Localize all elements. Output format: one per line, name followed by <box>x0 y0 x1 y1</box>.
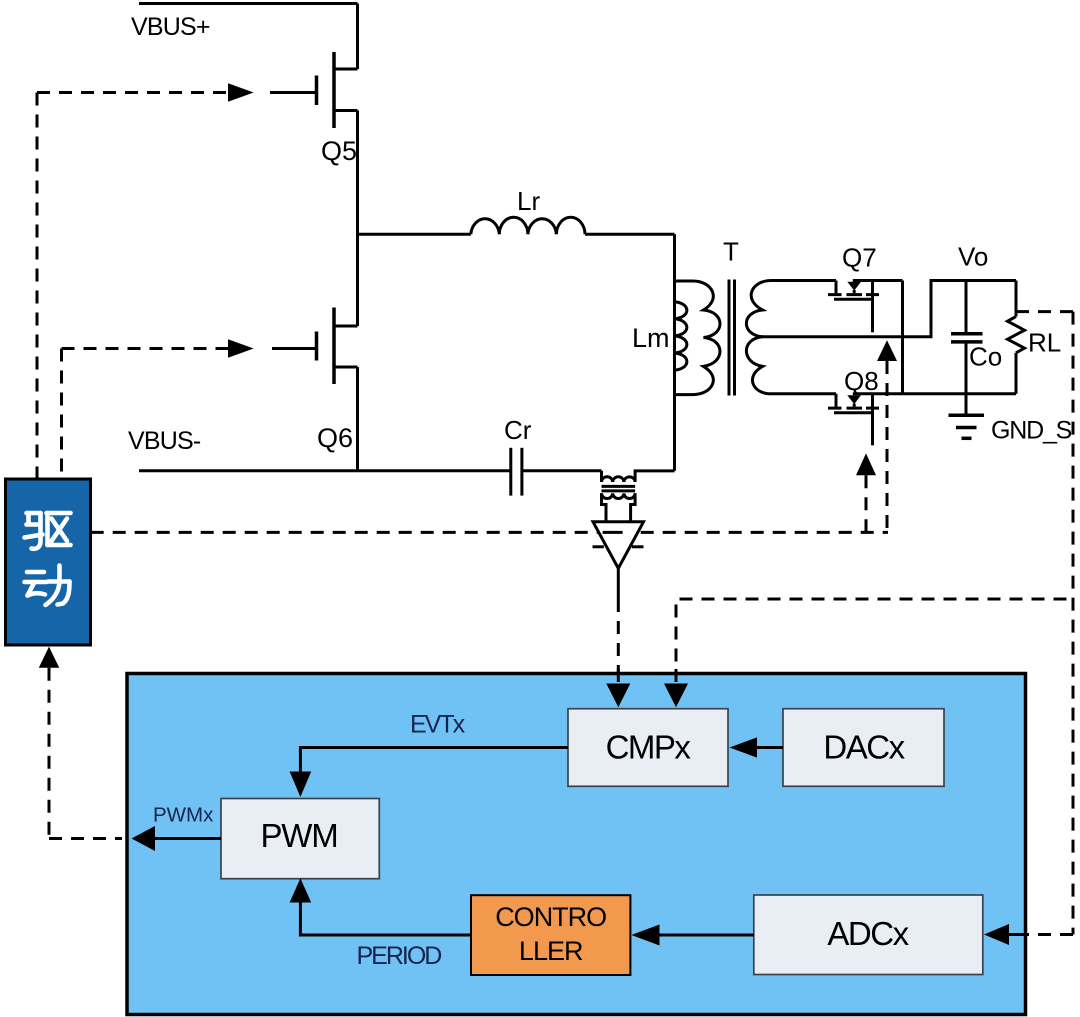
wire Vo node down to Co <box>965 281 968 334</box>
ground GND_S <box>949 415 985 438</box>
svg-text:GND_S: GND_S <box>991 417 1072 445</box>
wire Cr to current transformer <box>523 469 602 472</box>
wire dashed feedback corner to CMPx <box>676 599 1073 684</box>
transistor Q8 <box>828 394 879 446</box>
wire center tap to Vo rail <box>763 281 1017 337</box>
arrowhead into PWM bottom <box>290 878 312 902</box>
svg-text:Cr: Cr <box>504 415 532 445</box>
wire dashed stub into CMPx right <box>675 669 678 684</box>
block PWM <box>221 799 379 879</box>
wire dashed PWMx to driver <box>49 668 122 839</box>
arrowhead into CMPx left <box>606 684 630 708</box>
svg-text:T: T <box>723 237 739 267</box>
inductor Lm <box>675 302 687 371</box>
resistor RL <box>1008 281 1025 394</box>
svg-text:LLER: LLER <box>519 936 583 966</box>
wire dashed Q6 gate from driver <box>62 349 229 479</box>
current transformer primary <box>602 471 675 482</box>
wire Co bottom to ground <box>965 342 968 415</box>
transformer T core <box>729 280 735 396</box>
wire EVTx from CMPx to PWM <box>300 748 568 772</box>
block CONTROLLER <box>471 895 630 975</box>
svg-text:PWMx: PWMx <box>153 803 214 826</box>
wire dashed comparator output to CMPx <box>617 599 620 684</box>
wire feedback into ADCx <box>1009 933 1025 936</box>
wire GND_S rail from Q8 to RL bottom <box>853 392 1016 395</box>
arrowhead into CMPx right <box>664 684 688 708</box>
capacitor Cr <box>511 448 522 496</box>
arrowhead into CMPx from DACx <box>730 737 758 757</box>
wire dashed Vo sense from RL <box>1016 310 1073 313</box>
glyph 动 <box>25 566 70 606</box>
svg-text:Q5: Q5 <box>321 136 357 166</box>
svg-text:EVTx: EVTx <box>410 711 466 739</box>
capacitor Co <box>951 334 983 342</box>
svg-text:Q6: Q6 <box>317 423 353 453</box>
wire VBUS- rail to Cr <box>139 469 510 472</box>
wire dashed into ADCx <box>1026 933 1073 936</box>
svg-text:CONTRO: CONTRO <box>495 902 606 932</box>
arrowhead Q8 gate drive <box>856 453 876 475</box>
wire dashed Q8 gate drive <box>865 475 868 532</box>
transistor Q5 <box>270 52 358 128</box>
control box <box>127 674 1026 1015</box>
wire CT secondary leads <box>602 493 636 521</box>
wire Q7 to output node <box>853 279 903 282</box>
arrowhead into CONTROLLER <box>631 925 659 946</box>
svg-text:Q7: Q7 <box>842 243 877 273</box>
arrowhead into PWM top <box>290 772 312 798</box>
transistor Q6 <box>272 308 358 385</box>
wire VBUS+ top rail <box>139 2 358 5</box>
wire drain of Q5 from top rail <box>356 4 359 70</box>
wire Q5 source to Q6 drain <box>356 111 359 327</box>
transformer T secondary upper winding <box>746 281 836 337</box>
svg-text:RL: RL <box>1028 328 1061 358</box>
wire dashed Q7 gate drive <box>886 361 889 532</box>
glyph 驱 <box>25 513 71 549</box>
wire PWMx out of PWM <box>155 837 221 840</box>
transformer T primary winding <box>675 281 721 395</box>
transistor Q7 <box>828 281 879 333</box>
arrowhead Q7 gate drive <box>877 340 897 361</box>
arrowhead Q6 gate <box>228 339 254 357</box>
svg-text:ADCx: ADCx <box>827 915 909 952</box>
svg-text:Q8: Q8 <box>844 366 879 396</box>
svg-text:CMPx: CMPx <box>606 729 692 766</box>
svg-text:PERIOD: PERIOD <box>357 942 442 970</box>
svg-text:PWM: PWM <box>260 817 337 854</box>
wire Lr to transformer <box>585 233 675 236</box>
svg-text:Lm: Lm <box>632 323 670 353</box>
wire dashed stub into CMPx left <box>617 669 620 684</box>
wire rectifier common vertical <box>901 281 904 394</box>
wire dashed Q5 gate from driver <box>37 93 228 479</box>
svg-text:Co: Co <box>969 342 1002 372</box>
wire dashed right-edge feedback vertical <box>1072 312 1075 935</box>
wire primary vertical branch <box>673 234 676 471</box>
svg-text:VBUS+: VBUS+ <box>131 13 210 41</box>
svg-text:Vo: Vo <box>958 242 988 272</box>
wire half-bridge node to Lr <box>358 233 471 236</box>
wire Q6 source down to VBUS- rail <box>356 367 359 471</box>
block ADCx <box>754 895 983 975</box>
wire PERIOD from CONTROLLER to PWM <box>300 903 471 936</box>
driver block 驱动 <box>6 479 91 645</box>
svg-text:DACx: DACx <box>823 729 905 766</box>
wire DACx to CMPx <box>757 746 783 749</box>
arrowhead PWMx pointing left <box>132 826 156 851</box>
svg-text:VBUS-: VBUS- <box>128 427 201 455</box>
wire comparator output stem <box>617 568 620 599</box>
wire dashed drive net from driver to Q7/Q8 gates <box>91 531 888 534</box>
arrowhead Q5 gate <box>228 83 254 101</box>
wire ADCx to CONTROLLER <box>660 934 754 937</box>
current transformer secondary <box>602 493 636 498</box>
arrowhead into ADCx <box>984 924 1009 945</box>
svg-text:Lr: Lr <box>517 186 540 216</box>
transformer T secondary lower winding <box>746 337 836 394</box>
comparator U1 <box>593 522 644 569</box>
arrowhead into driver from PWM <box>39 647 59 668</box>
block CMPx <box>568 709 728 787</box>
current transformer core <box>602 486 636 491</box>
inductor Lr <box>471 217 585 234</box>
block DACx <box>783 709 944 787</box>
